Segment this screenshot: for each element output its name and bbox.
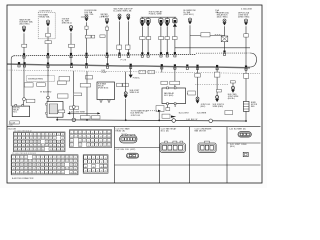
svg-text:33: 33	[13, 165, 15, 167]
wire	[197, 77, 199, 97]
svg-text:30: 30	[108, 141, 110, 143]
svg-text:PCM B+: PCM B+	[133, 78, 141, 80]
svg-text:62: 62	[50, 149, 52, 151]
svg-text:38: 38	[33, 165, 35, 167]
svg-text:3: 3	[80, 132, 81, 134]
svg-text:35: 35	[87, 145, 89, 147]
label wire color	[130, 90, 140, 94]
page number label top-right	[241, 9, 252, 11]
label	[251, 102, 258, 108]
label value	[24, 83, 33, 87]
node dot	[158, 120, 160, 122]
node dot	[56, 119, 58, 121]
connector S02	[46, 20, 50, 27]
svg-text:13: 13	[79, 137, 81, 139]
svg-text:42: 42	[23, 145, 25, 147]
wire	[216, 77, 218, 89]
wire	[174, 105, 176, 107]
svg-text:(BLU): (BLU)	[230, 146, 235, 148]
connector face C-02	[127, 153, 139, 158]
svg-text:22: 22	[33, 161, 35, 163]
connector M2	[124, 92, 128, 99]
wire	[167, 105, 169, 109]
label heater feed	[217, 11, 229, 18]
bus B1 left drop	[11, 56, 14, 64]
double arrow note	[68, 111, 100, 114]
connector G2	[215, 96, 219, 103]
connector K4	[165, 17, 169, 27]
svg-text:3: 3	[21, 157, 22, 159]
svg-text:(RED BLU): (RED BLU)	[62, 23, 72, 25]
bus2 connector at x246	[245, 65, 247, 70]
svg-text:35: 35	[21, 165, 23, 167]
connector face C-03	[160, 141, 185, 152]
svg-text:20: 20	[89, 171, 91, 173]
wire	[56, 117, 58, 120]
wire dashes	[215, 33, 221, 35]
label value	[139, 70, 146, 74]
wire	[23, 101, 24, 105]
wire	[232, 83, 234, 86]
wire	[224, 42, 226, 51]
legend header2	[9, 128, 17, 130]
svg-text:24: 24	[105, 171, 107, 173]
resistor R1	[243, 101, 249, 111]
svg-text:65: 65	[62, 149, 64, 151]
label wire color	[40, 91, 52, 93]
svg-text:10: 10	[50, 157, 52, 159]
svg-text:21: 21	[29, 161, 31, 163]
svg-text:31: 31	[30, 142, 32, 144]
node dot	[86, 119, 88, 121]
svg-text:73: 73	[46, 172, 48, 174]
connector view grid B-04	[83, 155, 108, 173]
svg-text:34: 34	[17, 165, 19, 167]
joint box symbol	[243, 152, 248, 156]
svg-text:22: 22	[46, 138, 48, 140]
wire S13 drop	[189, 25, 191, 54]
label value	[74, 93, 82, 96]
bus1 connector at x48	[47, 53, 49, 58]
bus1 connector at x148.1	[147, 52, 149, 57]
svg-text:15: 15	[70, 157, 72, 159]
label value	[244, 73, 249, 78]
bus2 connector at x48	[47, 62, 49, 67]
svg-text:12: 12	[58, 134, 60, 136]
dashed pointer	[148, 110, 161, 112]
connector G1	[196, 97, 200, 104]
svg-text:63: 63	[70, 169, 72, 171]
svg-text:9: 9	[104, 132, 105, 134]
svg-text:79: 79	[70, 172, 72, 174]
svg-text:13: 13	[62, 157, 64, 159]
label value	[59, 77, 70, 82]
svg-text:W BLK/RED: W BLK/RED	[40, 91, 52, 93]
bus2 connector at x86.5	[85, 63, 87, 68]
label meter fuse	[101, 14, 110, 18]
svg-text:29: 29	[62, 161, 64, 163]
connector face C-01	[120, 134, 137, 143]
pin numbers row	[12, 153, 36, 155]
bus1 connector at x119.5	[118, 52, 120, 57]
fuse F4 hatched	[221, 36, 228, 42]
svg-text:36: 36	[25, 165, 27, 167]
label value	[117, 45, 122, 49]
wire	[86, 71, 88, 83]
wire	[174, 66, 176, 81]
wire S04 drop	[86, 22, 88, 26]
svg-text:39: 39	[62, 142, 64, 144]
svg-text:41: 41	[46, 165, 48, 167]
svg-text:23: 23	[37, 161, 39, 163]
bus B1 right hook	[246, 53, 257, 67]
bus2 connector at x197.5	[196, 65, 198, 70]
svg-text:53: 53	[29, 169, 31, 171]
wire bus1-bus2	[107, 55, 109, 65]
connector K3	[159, 17, 163, 27]
svg-text:68: 68	[25, 172, 27, 174]
wire	[147, 27, 149, 37]
svg-text:11: 11	[54, 157, 56, 159]
note textblock	[131, 109, 150, 117]
svg-text:15: 15	[87, 137, 89, 139]
connector view grid B-02	[69, 130, 111, 148]
wire	[147, 40, 149, 55]
option dashed box	[38, 12, 55, 38]
svg-text:37: 37	[29, 165, 31, 167]
svg-text:4: 4	[26, 157, 27, 159]
wire	[106, 30, 108, 54]
svg-text:23: 23	[101, 171, 103, 173]
label value	[140, 37, 145, 40]
svg-text:58: 58	[34, 149, 36, 151]
svg-text:42: 42	[50, 165, 52, 167]
label on wire	[22, 44, 27, 47]
svg-text:18: 18	[105, 166, 107, 168]
wire	[174, 40, 176, 55]
bus2 connector at x71.5	[70, 63, 72, 68]
svg-text:16: 16	[92, 137, 94, 139]
label value	[58, 94, 69, 98]
svg-text:58: 58	[50, 169, 52, 171]
label on wire	[69, 44, 75, 47]
svg-text:50: 50	[17, 169, 19, 171]
bracket tick	[81, 16, 85, 18]
svg-text:39: 39	[37, 165, 39, 167]
svg-text:53: 53	[15, 149, 17, 151]
svg-text:B-01 JOINT WIRE: B-01 JOINT WIRE	[69, 111, 86, 113]
svg-text:RELAY (B): RELAY (B)	[116, 130, 126, 133]
svg-text:37: 37	[96, 145, 98, 147]
svg-text:40: 40	[108, 145, 110, 147]
label ref box	[10, 121, 19, 125]
label below bus2	[101, 70, 107, 74]
wire	[47, 65, 49, 102]
table divider v4	[226, 127, 228, 183]
grid caption	[12, 178, 34, 180]
svg-text:51: 51	[21, 169, 23, 171]
label value	[58, 110, 64, 113]
svg-text:33: 33	[79, 145, 81, 147]
svg-text:37: 37	[54, 142, 56, 144]
svg-text:12: 12	[105, 162, 107, 164]
connector K5	[173, 17, 177, 27]
legend header	[9, 124, 13, 126]
label value	[117, 83, 123, 87]
svg-text:32: 32	[34, 142, 36, 144]
svg-text:19: 19	[21, 161, 23, 163]
label value	[125, 45, 130, 49]
svg-text:70: 70	[33, 172, 35, 174]
panel4 header	[195, 128, 212, 132]
svg-text:(BLK): (BLK)	[201, 106, 206, 108]
svg-text:32: 32	[74, 161, 76, 163]
bus1 connector at x86.5	[85, 53, 87, 58]
svg-text:20: 20	[38, 138, 40, 140]
svg-text:56: 56	[27, 149, 29, 151]
label battery feed	[20, 18, 34, 25]
svg-text:16: 16	[74, 157, 76, 159]
svg-text:36: 36	[92, 145, 94, 147]
svg-text:38: 38	[100, 145, 102, 147]
svg-text:52: 52	[25, 169, 27, 171]
svg-text:27: 27	[54, 161, 56, 163]
caption text	[186, 119, 198, 121]
svg-text:45: 45	[34, 145, 36, 147]
svg-text:6: 6	[35, 134, 36, 136]
relay RY2	[46, 102, 63, 118]
svg-text:19: 19	[104, 137, 106, 139]
svg-text:59: 59	[38, 149, 40, 151]
connector face C-04	[198, 141, 216, 152]
bus1 connector at x128.3	[127, 52, 129, 57]
svg-text:PCM B+ WIRE: PCM B+ WIRE	[149, 14, 163, 16]
svg-text:5: 5	[31, 134, 32, 136]
svg-text:75: 75	[54, 172, 56, 174]
wire S01 drop	[23, 33, 25, 54]
wire	[125, 99, 127, 120]
arrow	[171, 116, 176, 118]
svg-text:WIRE (RED): WIRE (RED)	[213, 106, 224, 108]
svg-text:16: 16	[23, 138, 25, 140]
wire PCM top rail	[175, 47, 250, 49]
svg-text:49: 49	[13, 169, 15, 171]
bus2 connector at x19	[18, 62, 20, 67]
svg-text:24: 24	[83, 141, 85, 143]
svg-text:7: 7	[39, 134, 40, 136]
bracket wire	[141, 16, 176, 18]
svg-text:24: 24	[54, 138, 56, 140]
wire	[245, 111, 247, 121]
svg-text:10: 10	[50, 134, 52, 136]
bus2 connector at x130.7	[130, 64, 132, 69]
bus1 connector at x71	[70, 53, 72, 58]
svg-text:49: 49	[50, 145, 52, 147]
svg-text:26: 26	[62, 138, 64, 140]
svg-text:NO.2 (EGI): NO.2 (EGI)	[164, 95, 174, 97]
panel3 header	[161, 127, 177, 132]
svg-text:C-02 IGN COIL (GRY): C-02 IGN COIL (GRY)	[116, 149, 136, 151]
svg-text:24: 24	[42, 161, 44, 163]
wire	[245, 37, 247, 65]
svg-text:54: 54	[33, 169, 35, 171]
label value	[123, 83, 129, 87]
svg-text:80: 80	[74, 172, 76, 174]
svg-text:69: 69	[29, 172, 31, 174]
svg-text:B-01 J/B: B-01 J/B	[9, 128, 17, 130]
svg-text:2: 2	[17, 157, 18, 159]
svg-text:39: 39	[104, 145, 106, 147]
label value	[92, 116, 101, 119]
svg-text:9: 9	[46, 134, 47, 136]
svg-text:20: 20	[25, 161, 27, 163]
bus B1 solid	[14, 54, 196, 55]
svg-text:11: 11	[101, 162, 103, 164]
connector S13	[188, 18, 192, 25]
svg-text:26: 26	[92, 141, 94, 143]
svg-text:(EGI B+): (EGI B+)	[228, 98, 236, 100]
wire S05 drop	[106, 25, 108, 27]
connector K2	[146, 17, 150, 27]
wire bus1-bus2	[70, 55, 72, 65]
svg-text:66: 66	[17, 172, 19, 174]
label value	[159, 37, 164, 40]
svg-text:B-01 JOINT: B-01 JOINT	[179, 113, 190, 115]
svg-text:74: 74	[50, 172, 52, 174]
label	[228, 94, 239, 100]
svg-text:(WHT BLU): (WHT BLU)	[184, 14, 194, 16]
node ring open	[72, 118, 76, 122]
label	[213, 104, 225, 108]
svg-text:47: 47	[42, 145, 44, 147]
bus1 connector at x174.9	[174, 52, 176, 57]
svg-text:15: 15	[19, 138, 21, 140]
svg-text:21: 21	[42, 138, 44, 140]
svg-text:35: 35	[46, 142, 48, 144]
wire S06 drop	[119, 21, 121, 54]
connector S14	[223, 19, 227, 26]
svg-text:RES.: RES.	[251, 106, 255, 108]
label value	[188, 91, 196, 95]
label C-1	[244, 34, 249, 37]
label value	[58, 81, 67, 85]
svg-text:11: 11	[54, 134, 56, 136]
bus1 connector at x142.3	[141, 52, 143, 57]
wire	[160, 27, 162, 37]
label value	[26, 99, 35, 102]
svg-text:17: 17	[27, 138, 29, 140]
svg-text:9: 9	[93, 162, 94, 164]
label	[133, 78, 141, 80]
wire	[174, 27, 176, 37]
label value	[148, 70, 155, 74]
label in option box	[39, 14, 50, 19]
wire S14 drop	[224, 26, 226, 36]
svg-text:19: 19	[85, 171, 87, 173]
svg-text:(FUSE BOX): (FUSE BOX)	[98, 88, 109, 90]
box C2	[166, 108, 170, 111]
wire	[197, 67, 199, 74]
bus B1 dotted right	[196, 52, 250, 54]
connector S05	[105, 18, 109, 25]
svg-text:26: 26	[50, 161, 52, 163]
label value	[80, 116, 90, 119]
label right of RY2	[72, 106, 78, 110]
wire	[125, 72, 127, 92]
svg-text:55: 55	[23, 149, 25, 151]
label value	[170, 81, 180, 85]
table divider v3	[189, 127, 191, 183]
svg-text:59: 59	[54, 169, 56, 171]
svg-text:23: 23	[50, 138, 52, 140]
svg-text:28: 28	[100, 141, 102, 143]
svg-text:8: 8	[100, 132, 101, 134]
wire	[73, 71, 75, 106]
label value	[172, 37, 177, 40]
wire	[245, 67, 247, 73]
label sensor group	[149, 11, 163, 16]
label PCM	[121, 60, 127, 62]
box C	[156, 106, 164, 112]
table row line	[115, 164, 261, 166]
svg-text:18: 18	[100, 137, 102, 139]
dotted rail	[7, 70, 260, 74]
svg-text:27: 27	[15, 142, 17, 144]
svg-text:15: 15	[93, 166, 95, 168]
svg-text:19: 19	[34, 138, 36, 140]
table divider v2	[159, 127, 161, 183]
svg-text:(BLK RED): (BLK RED)	[20, 24, 30, 26]
svg-text:57: 57	[30, 149, 32, 151]
node ring	[23, 98, 26, 101]
label value	[37, 83, 46, 87]
wire S07 drop	[127, 21, 129, 54]
wire	[23, 64, 25, 97]
svg-text:55: 55	[37, 169, 39, 171]
svg-text:43: 43	[27, 145, 29, 147]
label value	[216, 90, 221, 93]
svg-text:17: 17	[13, 161, 15, 163]
connector S04	[85, 15, 89, 22]
wire	[160, 40, 162, 55]
svg-text:14: 14	[66, 157, 68, 159]
connector S03	[69, 26, 73, 33]
svg-text:51: 51	[58, 145, 60, 147]
relay RY1	[12, 105, 29, 117]
node dot	[125, 119, 127, 121]
label above option box	[39, 10, 52, 12]
svg-text:40: 40	[42, 165, 44, 167]
svg-text:71: 71	[37, 172, 39, 174]
fuse F1	[46, 33, 51, 37]
bus1 connector at x224.5	[223, 51, 225, 56]
wire	[141, 40, 143, 55]
wire S02 drop	[47, 27, 49, 33]
bus1 connector at x167.2	[166, 52, 168, 57]
svg-text:B-03 PCM CONNECTOR: B-03 PCM CONNECTOR	[12, 178, 34, 180]
svg-text:30: 30	[27, 142, 29, 144]
label value	[195, 73, 201, 77]
wire	[187, 93, 193, 95]
svg-text:13: 13	[85, 166, 87, 168]
node ring	[47, 96, 50, 99]
svg-text:72: 72	[42, 172, 44, 174]
svg-text:48: 48	[74, 165, 76, 167]
wire link	[190, 35, 225, 37]
wire	[86, 29, 88, 54]
svg-text:48: 48	[46, 145, 48, 147]
svg-text:22: 22	[97, 171, 99, 173]
